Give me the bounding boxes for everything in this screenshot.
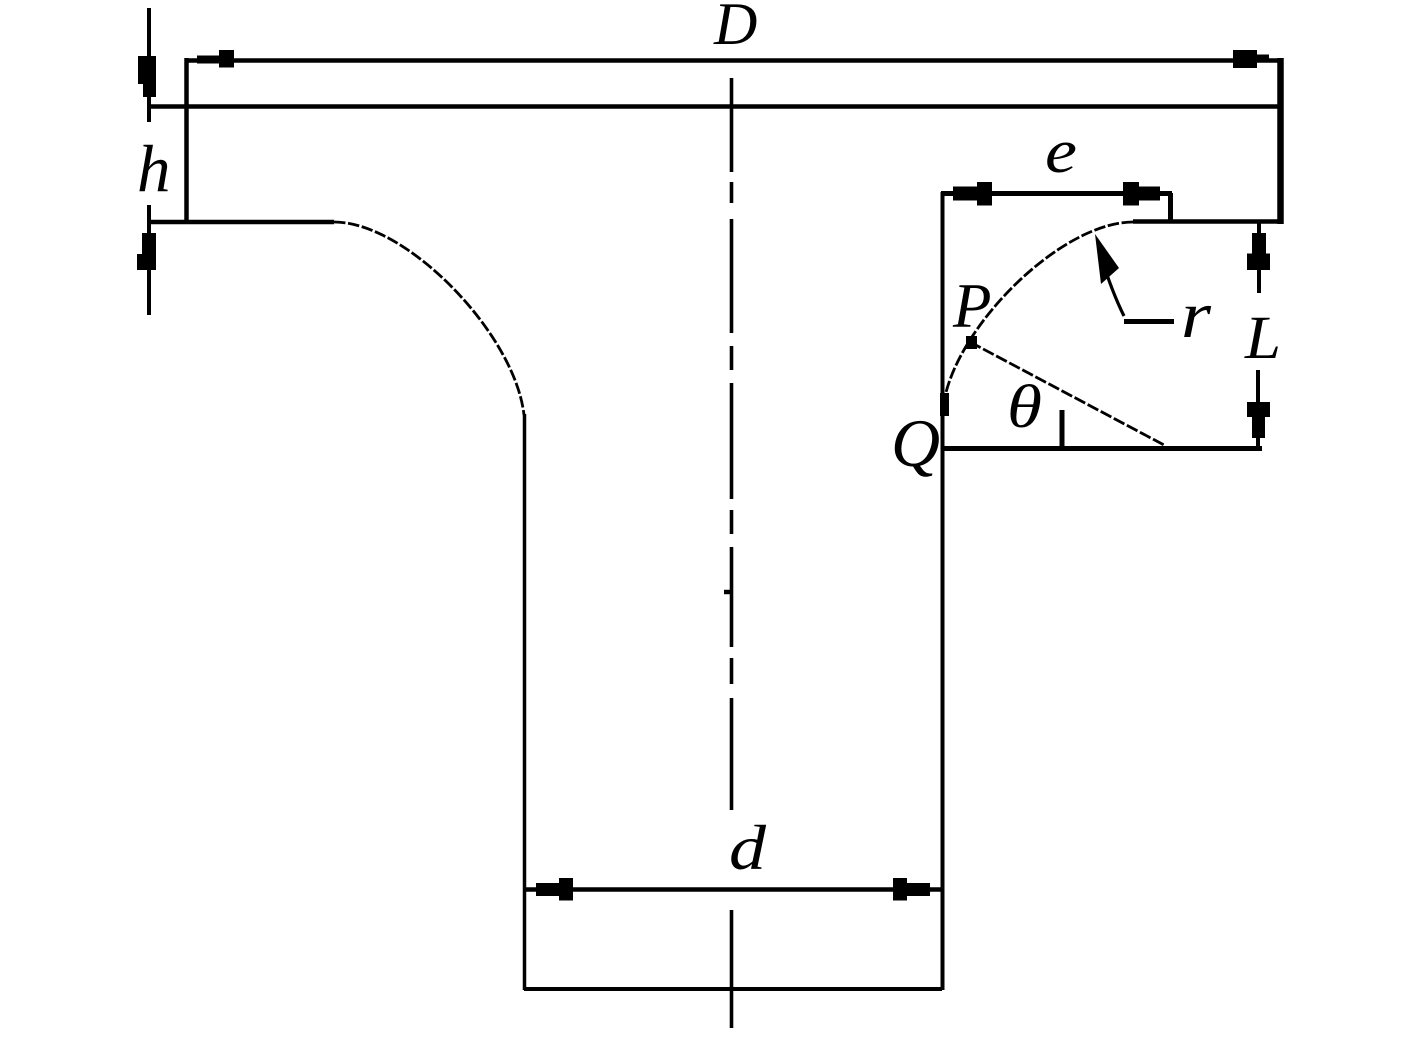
flange bottom right line xyxy=(1133,219,1283,224)
arrowhead d left xyxy=(536,878,573,901)
svg-text:D: D xyxy=(713,0,757,57)
arc end thick mark near Q xyxy=(940,393,949,416)
point P junction dot xyxy=(966,336,977,349)
theta slant line xyxy=(970,342,1164,445)
svg-text:h: h xyxy=(137,132,171,206)
arrowhead h down xyxy=(138,56,156,97)
svg-text:L: L xyxy=(1244,305,1281,372)
arrowhead D right xyxy=(1233,50,1269,68)
flange bottom left line xyxy=(147,220,334,225)
svg-text:P: P xyxy=(952,271,991,341)
center tick mark xyxy=(724,590,731,595)
svg-text:r: r xyxy=(1181,279,1211,352)
left fillet arc xyxy=(334,222,524,415)
dimension line d xyxy=(524,887,942,892)
arrowhead e left xyxy=(953,182,992,206)
vertical connector e to flange bottom xyxy=(1168,193,1173,222)
shank left edge xyxy=(523,414,527,990)
svg-text:θ: θ xyxy=(1007,374,1042,441)
L extension bottom xyxy=(1256,370,1260,448)
leader line r xyxy=(1099,250,1124,316)
svg-text:Q: Q xyxy=(891,405,940,481)
flange left edge xyxy=(184,58,189,224)
arrowhead h up xyxy=(137,233,156,270)
theta vertical tick xyxy=(1060,410,1065,448)
center line dash-dot xyxy=(730,78,734,1028)
dimension line e xyxy=(941,191,1172,196)
arrowhead d right xyxy=(893,878,930,901)
shank bottom line xyxy=(524,987,942,991)
arrowhead L down xyxy=(1247,402,1270,438)
svg-text:d: d xyxy=(729,813,767,883)
arrowhead e right xyxy=(1123,182,1160,206)
svg-text:e: e xyxy=(1045,118,1077,186)
flange top line xyxy=(147,104,1283,109)
arrowhead L up xyxy=(1247,233,1270,270)
shank right edge xyxy=(941,192,945,990)
dimension line D xyxy=(186,58,1281,63)
h extension line bottom xyxy=(147,205,151,315)
L extension top xyxy=(1257,223,1261,293)
flange right edge xyxy=(1277,58,1284,224)
arrowhead D left xyxy=(197,50,234,68)
detail fillet arc xyxy=(943,222,1133,408)
arrowhead r xyxy=(1095,234,1119,284)
detail bottom line from Q xyxy=(942,446,1262,451)
h extension line top xyxy=(147,8,151,122)
